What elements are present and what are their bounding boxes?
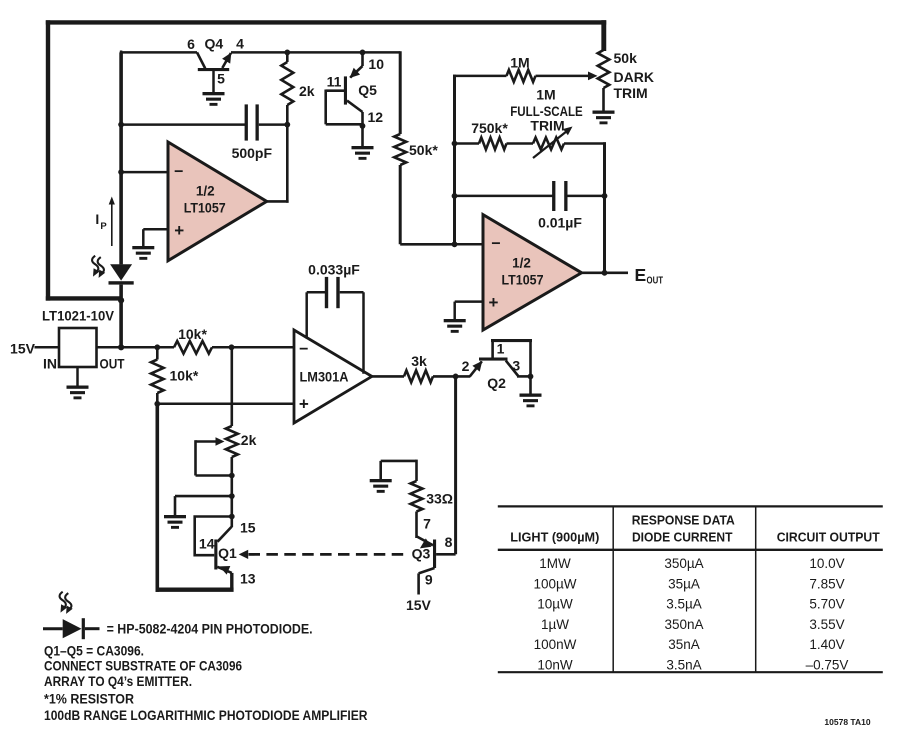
svg-text:1M: 1M [536,87,555,103]
svg-text:−: − [299,341,308,358]
svg-text:= HP-5082-4204 PIN PHOTODIODE.: = HP-5082-4204 PIN PHOTODIODE. [107,622,313,637]
svg-text:10nW: 10nW [537,658,573,673]
svg-text:1/2: 1/2 [512,255,531,270]
svg-text:0.01µF: 0.01µF [538,215,582,231]
svg-text:+: + [489,293,499,312]
svg-text:1/2: 1/2 [196,184,215,199]
svg-text:10.0V: 10.0V [809,556,844,571]
svg-text:+: + [299,394,309,413]
svg-text:350nA: 350nA [664,617,703,632]
svg-text:OUT: OUT [100,356,125,372]
svg-text:1.40V: 1.40V [809,637,844,652]
svg-text:10k*: 10k* [170,368,199,384]
svg-text:14: 14 [199,536,215,552]
svg-text:4: 4 [236,36,244,52]
svg-text:TRIM: TRIM [614,85,648,101]
svg-text:1: 1 [497,341,505,357]
svg-text:DIODE CURRENT: DIODE CURRENT [632,529,733,544]
svg-text:−: − [491,236,500,253]
svg-text:35µA: 35µA [668,576,700,591]
svg-text:0.033µF: 0.033µF [308,262,360,278]
svg-text:–0.75V: –0.75V [806,658,849,673]
svg-text:750k*: 750k* [471,120,508,136]
svg-text:Q1: Q1 [218,545,237,561]
svg-text:IN: IN [43,356,57,372]
svg-text:−: − [174,164,183,181]
svg-text:1MW: 1MW [539,556,571,571]
svg-text:CONNECT SUBSTRATE OF CA3096: CONNECT SUBSTRATE OF CA3096 [44,659,242,674]
svg-text:350µA: 350µA [664,556,703,571]
svg-text:ARRAY TO Q4’s EMITTER.: ARRAY TO Q4’s EMITTER. [44,674,192,689]
svg-text:3.5µA: 3.5µA [666,597,702,612]
svg-text:LT1057: LT1057 [184,200,226,215]
svg-text:Q2: Q2 [487,375,506,391]
svg-text:7: 7 [423,515,431,531]
svg-text:2k: 2k [241,432,257,448]
svg-text:9: 9 [425,572,433,588]
svg-text:RESPONSE DATA: RESPONSE DATA [632,513,736,528]
svg-text:33Ω: 33Ω [426,490,453,506]
svg-text:CIRCUIT OUTPUT: CIRCUIT OUTPUT [777,529,880,544]
svg-text:3: 3 [512,357,520,373]
svg-text:LT1021-10V: LT1021-10V [42,308,115,324]
svg-text:13: 13 [240,571,256,587]
svg-text:2k: 2k [299,83,315,99]
svg-text:10k*: 10k* [178,326,207,342]
svg-text:500pF: 500pF [232,145,273,161]
svg-text:2: 2 [462,358,470,374]
svg-text:Q5: Q5 [358,82,377,98]
svg-text:*1% RESISTOR: *1% RESISTOR [44,691,134,706]
svg-text:10µW: 10µW [537,597,573,612]
svg-text:1µW: 1µW [541,617,569,632]
svg-text:10578 TA10: 10578 TA10 [824,717,870,727]
svg-text:Q4: Q4 [204,36,223,52]
svg-text:35nA: 35nA [668,637,700,652]
svg-text:15: 15 [240,519,256,535]
svg-text:8: 8 [445,534,453,550]
svg-text:11: 11 [327,74,342,90]
svg-text:E: E [635,265,647,285]
svg-text:5.70V: 5.70V [809,597,844,612]
svg-text:LT1057: LT1057 [502,272,544,287]
svg-text:7.85V: 7.85V [809,576,844,591]
svg-text:100dB RANGE LOGARITHMIC PHOTOD: 100dB RANGE LOGARITHMIC PHOTODIODE AMPLI… [44,708,368,723]
svg-text:12: 12 [368,109,384,125]
svg-text:LIGHT (900µM): LIGHT (900µM) [510,529,599,544]
svg-text:1M: 1M [510,54,529,70]
svg-text:50k: 50k [614,50,638,66]
svg-text:50k*: 50k* [409,142,438,158]
svg-text:TRIM: TRIM [530,118,564,134]
svg-text:100nW: 100nW [534,637,577,652]
svg-text:Q1–Q5 = CA3096.: Q1–Q5 = CA3096. [44,644,144,659]
svg-text:3k: 3k [411,353,427,369]
svg-text:15V: 15V [406,597,432,613]
svg-text:15V: 15V [10,340,36,356]
svg-text:LM301A: LM301A [300,369,349,384]
svg-text:DARK: DARK [614,69,654,85]
svg-text:10: 10 [368,56,384,72]
svg-text:I: I [95,211,99,227]
svg-text:6: 6 [187,36,195,52]
svg-text:P: P [100,221,107,232]
svg-text:+: + [174,221,184,240]
svg-text:3.55V: 3.55V [809,617,844,632]
svg-text:5: 5 [217,71,225,87]
svg-text:3.5nA: 3.5nA [666,658,701,673]
svg-text:100µW: 100µW [533,576,576,591]
svg-text:OUT: OUT [647,274,664,286]
